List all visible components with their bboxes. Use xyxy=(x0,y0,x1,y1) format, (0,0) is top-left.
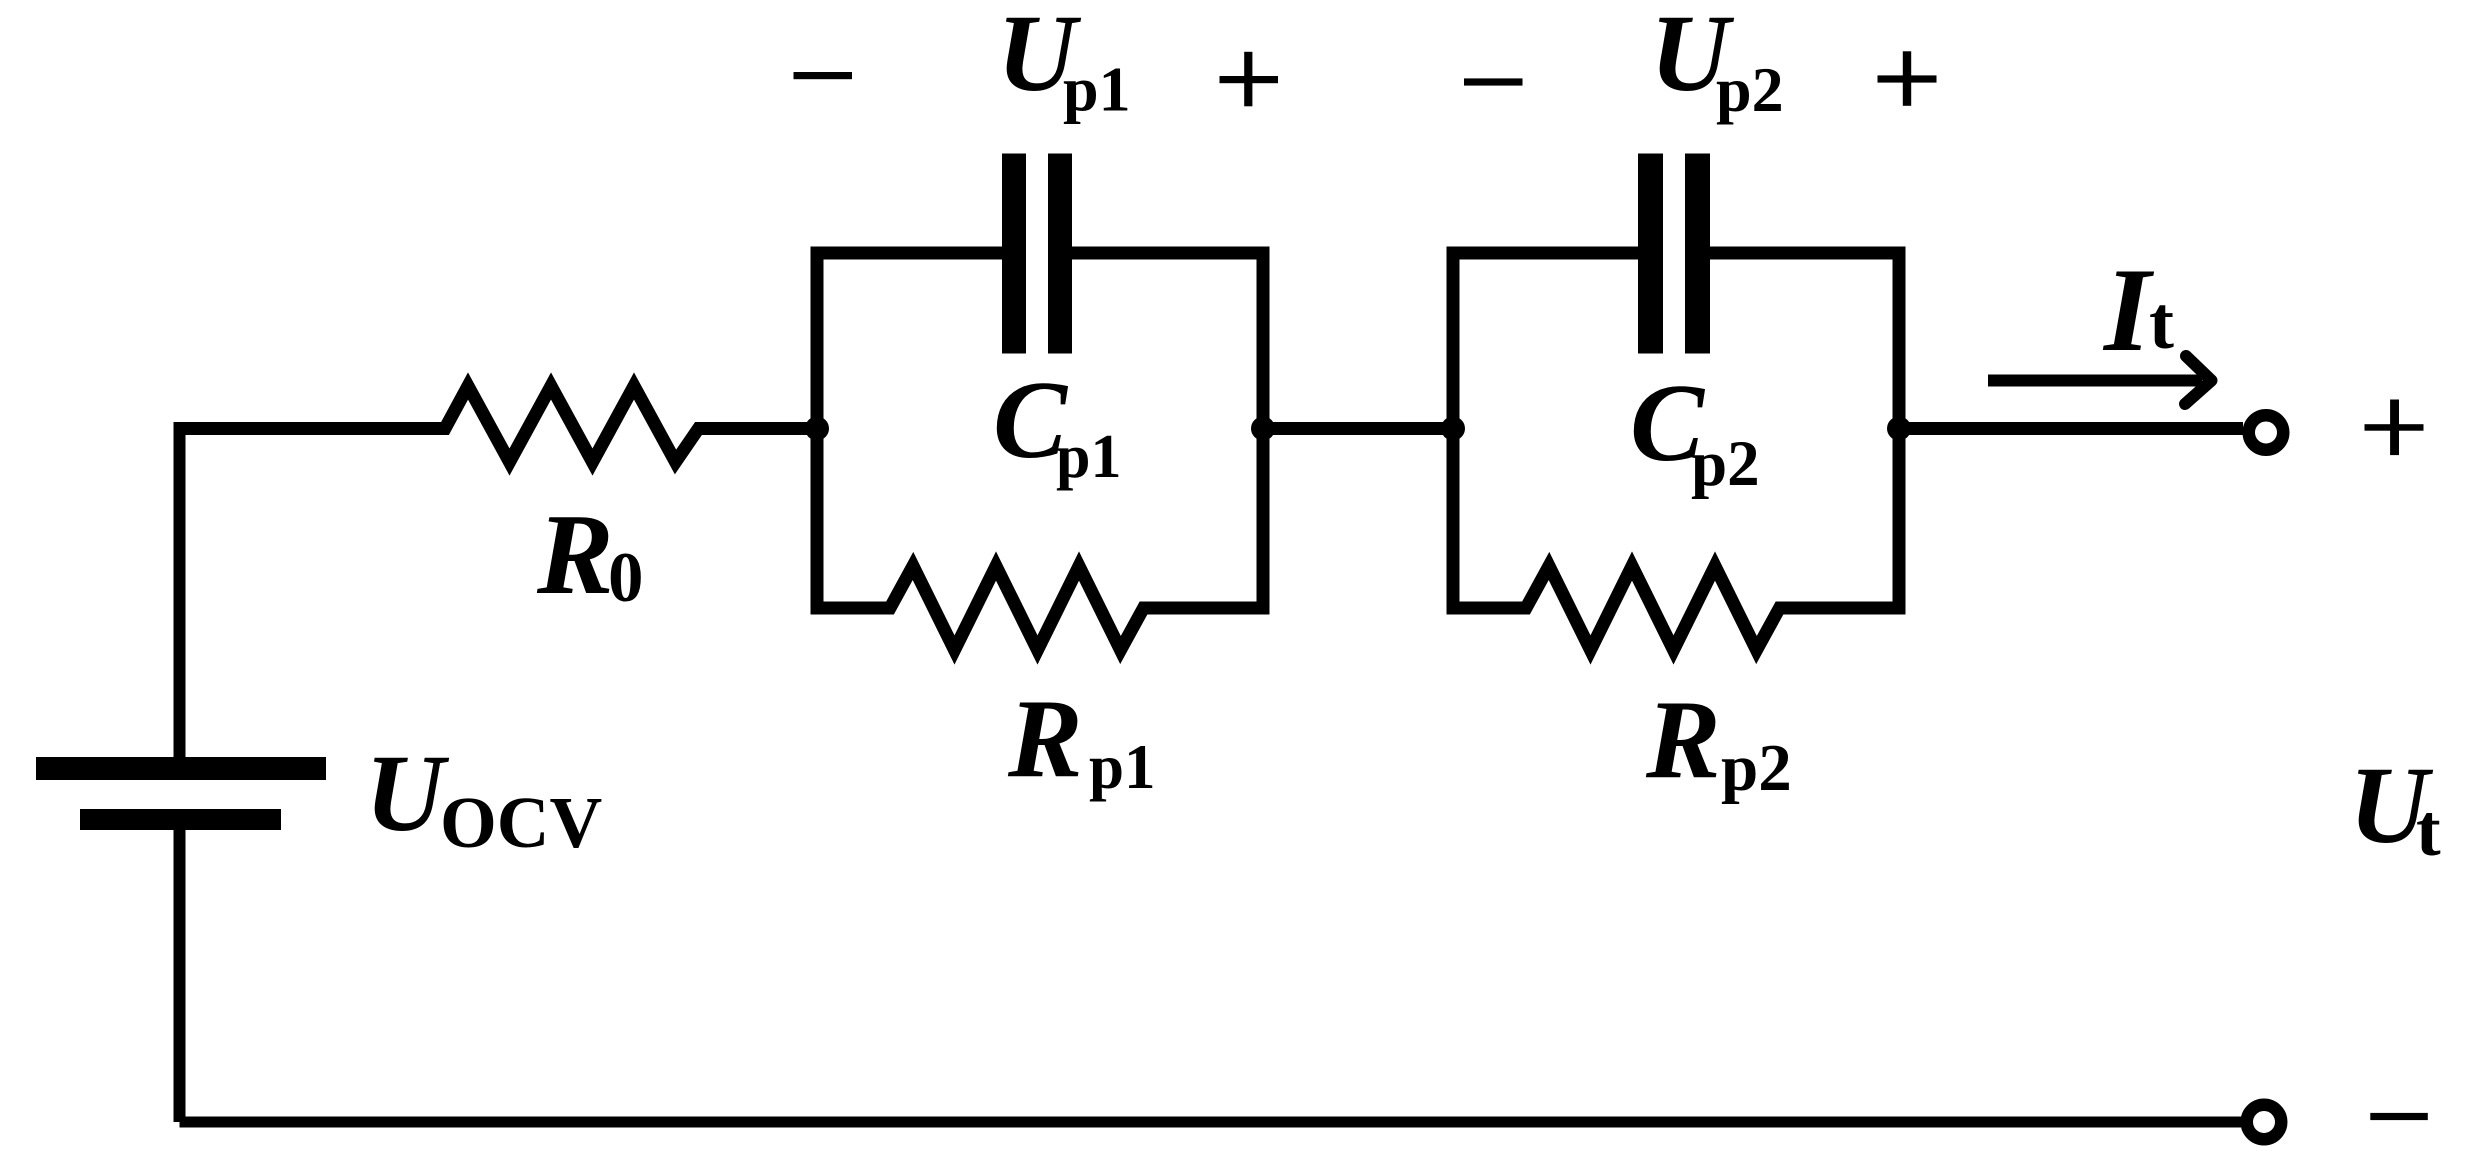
label Ut xyxy=(2349,744,2441,872)
wire: main line from battery top corner to R0 xyxy=(174,422,441,435)
wire: RC1 bottom right segment xyxy=(1148,602,1270,615)
svg-text:t: t xyxy=(2416,790,2441,872)
terminal positive: open circle xyxy=(2249,415,2284,450)
svg-text:I: I xyxy=(2102,243,2155,376)
wire: RC2 top right segment xyxy=(1710,247,1906,260)
capacitor Cp2 xyxy=(1638,154,1710,354)
svg-text:p1: p1 xyxy=(1089,732,1156,802)
svg-text:U: U xyxy=(365,732,450,854)
svg-text:R: R xyxy=(536,491,614,618)
svg-text:0: 0 xyxy=(608,539,644,617)
terminal negative: open circle xyxy=(2247,1105,2282,1140)
wire: RC2 bottom left segment xyxy=(1447,602,1522,615)
current arrow It xyxy=(1988,356,2212,404)
wire: RC2 top left segment xyxy=(1447,247,1639,260)
label Cp1 xyxy=(993,359,1121,491)
wire: RC1 top right segment xyxy=(1072,247,1270,260)
terminal positive: plus sign xyxy=(2365,400,2424,456)
resistor Rp2 xyxy=(1517,566,1788,650)
label Rp1 xyxy=(1007,677,1156,802)
svg-text:R: R xyxy=(1007,677,1083,801)
svg-text:R: R xyxy=(1645,678,1721,802)
node B: junction dot RC1 right xyxy=(1251,417,1275,441)
label R0 xyxy=(536,491,644,618)
label Cp2 xyxy=(1630,362,1760,500)
wire: RC2 right vertical xyxy=(1893,247,1906,615)
svg-text:p1: p1 xyxy=(1056,423,1121,491)
label Up2 xyxy=(1650,0,1784,125)
svg-text:OCV: OCV xyxy=(440,782,602,863)
wire: RC2 bottom right segment xyxy=(1784,602,1906,615)
svg-text:p2: p2 xyxy=(1721,731,1792,805)
wire: RC1 to RC2 xyxy=(1263,422,1453,435)
capacitor Cp1 xyxy=(1002,154,1072,354)
label plus Up1 xyxy=(1220,52,1279,107)
wire: RC1 bottom left segment xyxy=(811,602,886,615)
label Rp2 xyxy=(1645,678,1792,805)
label It xyxy=(2102,243,2174,376)
svg-text:p2: p2 xyxy=(1716,54,1784,125)
node A: junction dot RC1 left xyxy=(805,417,829,441)
wire: RC2 left vertical xyxy=(1447,247,1460,615)
battery UOCV: short plate xyxy=(80,809,281,830)
node C: junction dot RC2 left xyxy=(1441,417,1465,441)
wire: RC1 right vertical xyxy=(1257,247,1270,615)
svg-text:p2: p2 xyxy=(1691,428,1760,500)
battery UOCV: bottom lead wire xyxy=(174,830,186,1122)
wire: RC2 to positive terminal xyxy=(1899,422,2243,435)
wire: RC1 top left segment xyxy=(811,247,1003,260)
terminal negative: minus sign xyxy=(2370,1113,2428,1120)
label UOCV xyxy=(365,732,602,863)
resistor Rp1 xyxy=(881,566,1152,650)
label plus Up2 xyxy=(1878,51,1937,106)
node D: junction dot RC2 right xyxy=(1887,417,1911,441)
svg-text:p1: p1 xyxy=(1063,54,1131,125)
label minus Up1 xyxy=(794,72,853,79)
wire: RC1 left vertical xyxy=(811,247,824,615)
label minus Up2 xyxy=(1464,78,1523,85)
battery UOCV: top lead wire xyxy=(174,429,186,758)
resistor R0 xyxy=(436,386,707,462)
battery UOCV: long plate xyxy=(36,757,326,780)
wire: bottom return line xyxy=(180,1117,2242,1128)
svg-text:t: t xyxy=(2149,282,2174,365)
label Up1 xyxy=(997,0,1131,125)
wire: R0 to RC1 left node xyxy=(703,422,817,435)
